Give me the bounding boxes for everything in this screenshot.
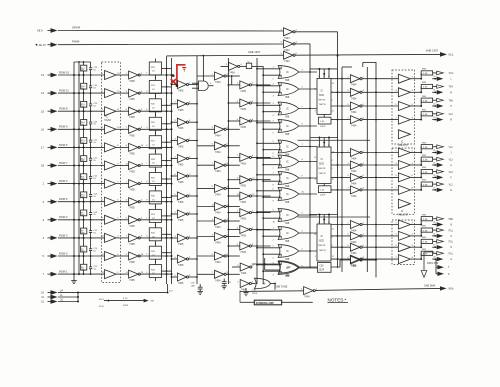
wire buffer 11 output bbox=[116, 255, 129, 257]
wire power rail above module U7 bbox=[310, 68, 338, 79]
buffer bank2 4 bbox=[395, 185, 413, 194]
connector output NDA bbox=[440, 286, 454, 290]
wire output 4 bbox=[432, 117, 437, 121]
svg-text:7405: 7405 bbox=[178, 201, 184, 204]
svg-text:27: 27 bbox=[433, 187, 435, 189]
svg-text:2: 2 bbox=[323, 76, 324, 78]
buffer U1 row 11 bbox=[102, 252, 120, 261]
svg-text:8: 8 bbox=[146, 181, 147, 183]
svg-text:ONE TONE: ONE TONE bbox=[275, 286, 288, 289]
connector output pin G bbox=[437, 257, 453, 261]
connector output pullup VL1 bbox=[437, 182, 454, 186]
svg-text:VL3: VL3 bbox=[449, 172, 454, 174]
svg-text:RESTR: RESTR bbox=[318, 100, 326, 102]
wire power rail above module U8 bbox=[310, 137, 338, 148]
wire buffer 1 output bbox=[116, 74, 129, 76]
resistor R105 bbox=[99, 298, 154, 308]
or gate X8 bbox=[278, 188, 299, 204]
wires and gate U4A pins bbox=[192, 83, 214, 88]
inverter U6 row 7 bbox=[237, 209, 254, 221]
svg-text:23: 23 bbox=[433, 257, 435, 259]
svg-text:3: 3 bbox=[315, 179, 316, 181]
svg-text:IC: IC bbox=[286, 176, 289, 180]
connector output DATA 2 bbox=[436, 267, 450, 276]
connector input pin 3 (ROW 2) bbox=[43, 217, 58, 222]
connector output pin P bbox=[437, 104, 453, 108]
svg-text:20: 20 bbox=[433, 76, 435, 78]
or gate X9 bbox=[278, 209, 299, 225]
wire output 8 bbox=[432, 187, 437, 191]
svg-text:17: 17 bbox=[41, 146, 44, 150]
or gate X1 bbox=[278, 66, 299, 82]
svg-text:7404: 7404 bbox=[351, 125, 357, 128]
svg-text:ROW 11: ROW 11 bbox=[59, 89, 69, 93]
svg-text:PWM: PWM bbox=[72, 40, 80, 44]
svg-text:NETW: NETW bbox=[319, 104, 326, 106]
wire bus E to inverter C5 bbox=[197, 187, 215, 189]
wire buffer bank3.1 output bbox=[410, 224, 420, 226]
wire buffer 8 output bbox=[116, 201, 129, 203]
svg-text:ROW 0: ROW 0 bbox=[59, 251, 68, 255]
inverter U15B bbox=[237, 280, 254, 292]
svg-text:5.6K: 5.6K bbox=[423, 172, 428, 174]
wire one-tone line bbox=[240, 290, 304, 293]
wire net PWM bbox=[58, 43, 284, 46]
resistor R33 bbox=[149, 243, 171, 263]
resistor R29 bbox=[149, 169, 171, 189]
wire inverter C5 output bbox=[226, 188, 240, 190]
svg-text:ROW 2: ROW 2 bbox=[59, 215, 68, 219]
wire output 1 bbox=[432, 76, 437, 80]
inverter U2 E row 5 bbox=[126, 143, 144, 155]
svg-text:7405: 7405 bbox=[129, 116, 135, 119]
wire buffer bank1.4 output bbox=[410, 119, 420, 121]
svg-text:16: 16 bbox=[41, 127, 44, 131]
inverter U3 row 8 bbox=[174, 210, 191, 222]
bus vertical A bbox=[73, 62, 75, 281]
svg-text:22: 22 bbox=[433, 245, 435, 247]
wire inverter B4 output bbox=[189, 140, 198, 142]
wire bus E to inverter C6 bbox=[197, 206, 215, 208]
wire inverter B9 output bbox=[189, 237, 198, 239]
inverter U12 gate 2 bbox=[347, 232, 364, 244]
wire gate X2 inputs bbox=[256, 84, 281, 98]
wire inverter C1 output bbox=[226, 75, 240, 77]
red annotation bracket bbox=[177, 65, 186, 86]
svg-text:7405: 7405 bbox=[178, 243, 184, 246]
wire buffer bank2.3 output bbox=[410, 176, 420, 178]
svg-text:7405: 7405 bbox=[129, 261, 135, 264]
capacitor C18 bbox=[89, 202, 98, 221]
resistor R12 pullup bbox=[81, 147, 87, 167]
svg-text:15: 15 bbox=[314, 88, 316, 90]
wire buffer 4 output bbox=[116, 128, 129, 130]
wire module U9 output 2 bbox=[331, 235, 350, 237]
svg-text:7404: 7404 bbox=[284, 60, 290, 63]
IC module U8 resistor network bbox=[314, 147, 334, 184]
wire bus D2 to inverter B1 bbox=[171, 84, 178, 86]
connector input pin 4 (ROW 3) bbox=[43, 236, 58, 241]
svg-text:13: 13 bbox=[41, 73, 44, 77]
dashed box buffer bank 1 bbox=[392, 70, 415, 144]
svg-text:7404: 7404 bbox=[215, 242, 221, 245]
svg-text:7405: 7405 bbox=[178, 219, 184, 222]
wire inverter C2 output bbox=[226, 128, 240, 130]
connector input pin 18 (ROW 7) bbox=[41, 163, 58, 168]
inverter U2 F row 12 bbox=[126, 270, 144, 282]
svg-text:ROW 5: ROW 5 bbox=[59, 197, 68, 201]
inverter U6 row 9 bbox=[237, 242, 254, 254]
svg-text:7405: 7405 bbox=[129, 171, 135, 174]
svg-text:5.6K: 5.6K bbox=[423, 230, 428, 232]
svg-text:1: 1 bbox=[318, 76, 319, 78]
wire gate X5 inputs bbox=[256, 141, 281, 155]
wire bus E to inverter C3 bbox=[197, 145, 215, 147]
svg-text:3: 3 bbox=[328, 76, 329, 78]
svg-text:7404: 7404 bbox=[215, 279, 221, 282]
svg-text:998: 998 bbox=[285, 222, 290, 225]
wire inverter B3 output bbox=[189, 121, 198, 123]
svg-text:7404: 7404 bbox=[351, 97, 357, 100]
wire gate X4 inputs bbox=[256, 121, 281, 135]
wire ROW 4 bbox=[58, 183, 105, 185]
svg-text:2: 2 bbox=[332, 237, 333, 239]
resistor R31 bbox=[149, 206, 171, 226]
label IC 74L54 bbox=[104, 116, 112, 123]
wire row 10 to bus D bbox=[140, 236, 173, 239]
resistor R89 output pullup bbox=[420, 82, 436, 93]
frame corner right top bbox=[342, 62, 376, 67]
wire inverter B6 output bbox=[189, 175, 198, 177]
wire bus E to inverter C8 bbox=[197, 236, 215, 238]
svg-text:7404: 7404 bbox=[304, 296, 310, 299]
wire buffer bank1.2 output bbox=[410, 91, 420, 93]
wire inverter B1 output bbox=[189, 84, 198, 86]
svg-text:7405: 7405 bbox=[178, 264, 184, 267]
svg-text:BCD: BCD bbox=[319, 241, 324, 243]
connector input pin 15 (ROW 8) bbox=[41, 109, 58, 114]
inverter U3 row 2 bbox=[174, 100, 191, 112]
svg-text:J: J bbox=[450, 153, 451, 155]
wire module U7 output 4 bbox=[331, 119, 350, 121]
svg-text:22UF: 22UF bbox=[320, 195, 326, 197]
wire ROW 10 bbox=[58, 74, 105, 76]
wire routing between group1 and group2 bbox=[298, 139, 371, 141]
wire bus E to inverter C4 bbox=[197, 164, 215, 166]
svg-text:IC: IC bbox=[286, 231, 289, 235]
svg-text:SUMMING AMP: SUMMING AMP bbox=[256, 302, 275, 305]
svg-text:7405: 7405 bbox=[178, 146, 184, 149]
connector output NL2 bbox=[440, 52, 454, 57]
capacitor module C30 bbox=[318, 263, 332, 273]
wire buffer bank2.4 output bbox=[410, 189, 420, 191]
svg-text:ROW 8: ROW 8 bbox=[59, 107, 68, 111]
wire gate X7 inputs bbox=[256, 173, 281, 187]
wire gate X7 output bbox=[299, 176, 317, 179]
inverter U12 gate 3 bbox=[347, 243, 364, 255]
buffer bank3 2 bbox=[395, 231, 413, 240]
resistor R23 bbox=[149, 59, 171, 79]
wire bus F to inverter D7 bbox=[228, 212, 240, 214]
svg-text:IC: IC bbox=[286, 249, 289, 253]
wire inverter D6 output bbox=[252, 195, 271, 197]
svg-text:7404: 7404 bbox=[229, 71, 235, 74]
resistor R80 output pullup bbox=[420, 214, 436, 225]
wire gate X8 inputs bbox=[256, 189, 281, 203]
wire U15B output to X15 bbox=[252, 283, 256, 285]
svg-text:IC: IC bbox=[286, 160, 289, 164]
wire bus E to inverter C1 bbox=[197, 75, 215, 77]
connector input AE-9 bbox=[37, 28, 58, 33]
IC module U9 resistor network bbox=[314, 224, 334, 261]
or gate X12 bbox=[278, 262, 299, 278]
buffer spare 2 bbox=[398, 199, 410, 208]
svg-text:IC: IC bbox=[321, 90, 324, 92]
buffer U1 row 10 bbox=[102, 233, 120, 242]
buffer bank1 2 bbox=[395, 88, 413, 97]
svg-text:PCL: PCL bbox=[449, 230, 454, 232]
wire LL LE join bbox=[58, 292, 79, 303]
svg-text:3: 3 bbox=[146, 236, 147, 238]
resistor R27 bbox=[149, 132, 171, 152]
svg-text:SO K: SO K bbox=[99, 299, 105, 301]
svg-text:7405: 7405 bbox=[178, 109, 184, 112]
svg-text:23: 23 bbox=[433, 117, 435, 119]
wire bus D2 to inverter B4 bbox=[171, 140, 178, 142]
capacitor C37 bottom bbox=[191, 282, 204, 294]
wire ROW 8 bbox=[58, 110, 105, 112]
buffer bank2 2 bbox=[395, 161, 413, 170]
wire bus F to inverter D8 bbox=[228, 229, 240, 231]
bus vertical right x367 bbox=[366, 67, 368, 272]
or gate X10 bbox=[278, 227, 299, 243]
or gate X4 bbox=[278, 120, 299, 136]
svg-text:998: 998 bbox=[285, 201, 290, 204]
buffer bank2 1 bbox=[395, 148, 413, 157]
wire U16A output bbox=[362, 259, 377, 261]
svg-text:7405: 7405 bbox=[129, 98, 135, 101]
buffer U1 row 4 bbox=[102, 125, 121, 134]
wire bus F to inverter D4 bbox=[228, 157, 240, 159]
wire row 4 to bus D bbox=[140, 127, 173, 130]
wire routing between group2 and group3 bbox=[298, 216, 371, 218]
inverter U2 B row 2 bbox=[126, 89, 143, 101]
svg-text:BCD: BCD bbox=[319, 95, 324, 97]
inverter U3 row 9 bbox=[174, 234, 191, 246]
wire gate X11 output bbox=[299, 249, 317, 252]
wire net ANE1307 left segment bbox=[167, 55, 284, 57]
svg-text:7404: 7404 bbox=[241, 272, 247, 275]
wire module U9 output 4 bbox=[331, 258, 350, 260]
svg-text:21: 21 bbox=[433, 233, 435, 235]
buffer bank3 3 bbox=[395, 243, 413, 252]
wire row 1 to bus D bbox=[140, 73, 173, 76]
svg-text:X2: X2 bbox=[247, 61, 249, 63]
svg-text:7405: 7405 bbox=[240, 251, 246, 254]
svg-text:5: 5 bbox=[146, 272, 147, 274]
wire U20B output to bus bbox=[295, 44, 310, 268]
svg-text:7404: 7404 bbox=[215, 81, 221, 84]
inverter U5 row 9 bbox=[212, 252, 229, 264]
svg-text:TK4: TK4 bbox=[449, 87, 454, 89]
svg-text:22: 22 bbox=[433, 103, 435, 105]
svg-text:1: 1 bbox=[318, 222, 319, 224]
svg-text:7405: 7405 bbox=[129, 134, 135, 137]
wire inverter C3 output bbox=[226, 145, 240, 147]
wire buffer bank1.1 output bbox=[410, 78, 420, 80]
wire buffer 12 output bbox=[116, 273, 129, 275]
capacitor C19 bbox=[89, 184, 98, 203]
wire gate X3 inputs bbox=[256, 103, 281, 117]
connector output pin J bbox=[437, 150, 452, 154]
svg-text:7404: 7404 bbox=[215, 226, 221, 229]
connector output pin R bbox=[437, 117, 453, 121]
svg-text:5.6K: 5.6K bbox=[423, 184, 428, 186]
wire gate X9 inputs bbox=[256, 210, 281, 224]
svg-text:VCC: VCC bbox=[449, 73, 454, 75]
svg-text:PCL: PCL bbox=[449, 242, 454, 244]
wire inverter D5 output bbox=[252, 179, 271, 181]
wire bus D2 to inverter B2 bbox=[171, 103, 178, 105]
wire inverter C6 output bbox=[226, 206, 240, 208]
wire bus F to inverter D5 bbox=[228, 179, 240, 181]
svg-text:G: G bbox=[450, 259, 452, 261]
wire bus D2 to inverter B10 bbox=[171, 258, 178, 260]
buffer bank1 1 bbox=[395, 74, 413, 83]
svg-text:5.6K: 5.6K bbox=[423, 242, 428, 244]
buffer U1 row 3 bbox=[102, 107, 121, 116]
svg-text:18: 18 bbox=[41, 164, 44, 168]
connector input AE-10 bbox=[36, 42, 58, 47]
wire module U7 output 3 bbox=[331, 105, 350, 107]
wire gate X12 inputs bbox=[256, 263, 281, 277]
svg-text:7404: 7404 bbox=[215, 134, 221, 137]
svg-text:24: 24 bbox=[433, 150, 435, 152]
wire bus F to inverter D9 bbox=[228, 245, 240, 247]
svg-text:7404: 7404 bbox=[351, 111, 357, 114]
resistor R93 output pullup bbox=[420, 155, 436, 166]
inverter U5 row 2 bbox=[212, 125, 229, 137]
svg-text:3: 3 bbox=[328, 222, 329, 224]
wire bus F to inverter D3 bbox=[228, 120, 240, 122]
svg-text:5: 5 bbox=[146, 127, 147, 129]
connector output pullup VL3 bbox=[437, 170, 454, 174]
svg-text:ANE 1307: ANE 1307 bbox=[248, 50, 261, 54]
inverter U10 gate 3 bbox=[347, 102, 364, 114]
dashed box buffer bank 3 bbox=[392, 220, 415, 264]
resistor R16 pullup bbox=[81, 74, 87, 94]
wire gate X2 output bbox=[299, 87, 317, 89]
connector output pin F bbox=[437, 175, 453, 179]
connector input LL bbox=[41, 294, 63, 300]
inverter U3 row 1 bbox=[174, 81, 191, 93]
inverter U16A bbox=[347, 256, 364, 268]
svg-text:DATA STR: DATA STR bbox=[427, 262, 439, 265]
svg-text:998: 998 bbox=[285, 116, 290, 119]
wire inverter U10.3 to buffer bbox=[362, 105, 398, 107]
resistor R28 bbox=[149, 151, 171, 171]
junction dots near red bracket bbox=[172, 74, 178, 87]
svg-text:12: 12 bbox=[332, 110, 334, 112]
wire bus E to inverter C2 bbox=[197, 128, 215, 130]
svg-text:5.6K: 5.6K bbox=[423, 73, 428, 75]
svg-text:ROW 9: ROW 9 bbox=[59, 125, 68, 129]
wire ROW 11 bbox=[58, 92, 105, 94]
wire gate X3 output bbox=[299, 106, 317, 109]
wire inverter U11.4 to buffer bbox=[362, 189, 398, 191]
wire module U8 output 3 bbox=[331, 177, 350, 179]
resistor R88 output pullup bbox=[420, 69, 436, 80]
svg-text:21: 21 bbox=[433, 90, 435, 92]
wire inverter C10 output bbox=[226, 273, 240, 275]
wire output 2 bbox=[432, 90, 437, 94]
inverter U2 F row 6 bbox=[126, 162, 144, 174]
svg-text:IC: IC bbox=[286, 107, 289, 111]
wire buffer bank2.2 output bbox=[410, 164, 420, 166]
capacitor C16 bbox=[89, 238, 98, 257]
svg-text:LH: LH bbox=[60, 289, 63, 292]
connector output pullup VL2 bbox=[437, 112, 454, 116]
svg-text:5.6K: 5.6K bbox=[423, 100, 428, 102]
inverter U5 row 3 bbox=[212, 142, 229, 154]
resistor R11 pullup bbox=[81, 165, 87, 185]
wire row 2 to bus D bbox=[140, 91, 173, 94]
label NOTES bbox=[328, 297, 349, 302]
buffer bank2 3 bbox=[395, 173, 413, 182]
top rail of RC network bbox=[74, 61, 91, 63]
inverter U6 row 5 bbox=[237, 176, 255, 188]
svg-text:7405: 7405 bbox=[129, 189, 135, 192]
wire bus D2 to inverter B9 bbox=[171, 237, 178, 239]
resistor R94 output pullup bbox=[420, 167, 436, 178]
svg-text:7404: 7404 bbox=[215, 212, 221, 215]
resistor R10 pullup bbox=[81, 183, 87, 203]
svg-text:IC: IC bbox=[321, 236, 324, 238]
connector output pin A bbox=[437, 163, 453, 167]
and gate U4A bbox=[199, 81, 209, 91]
connector input pin 16 (ROW 9) bbox=[41, 127, 58, 132]
resistor R8 pullup bbox=[81, 219, 87, 239]
svg-text:3: 3 bbox=[146, 91, 147, 93]
svg-text:5.6K: 5.6K bbox=[423, 159, 428, 161]
svg-text:22UF: 22UF bbox=[319, 270, 325, 272]
wire inverter C9 output bbox=[226, 255, 240, 257]
or gate X14 bbox=[279, 261, 300, 277]
wire inverter D8 output bbox=[252, 229, 271, 231]
wire buffer 3 output bbox=[116, 110, 129, 112]
svg-text:998: 998 bbox=[285, 185, 290, 188]
connector output pullup PB2 bbox=[437, 217, 454, 221]
wire row 3 to bus D bbox=[140, 109, 173, 112]
buffer U1 row 9 bbox=[102, 215, 120, 224]
connector output pullup VL3 bbox=[437, 157, 454, 161]
connector output pullup TK4 bbox=[437, 85, 454, 89]
svg-text:R105: R105 bbox=[123, 305, 129, 307]
bus vertical B bbox=[78, 62, 80, 274]
wire bus E to inverter C7 bbox=[197, 220, 215, 222]
svg-text:IC: IC bbox=[286, 192, 289, 196]
inverter U10 gate 2 bbox=[347, 88, 364, 100]
wire row 12 to bus D bbox=[140, 272, 173, 275]
svg-text:4: 4 bbox=[146, 109, 147, 111]
wire gate X6 inputs bbox=[256, 156, 281, 170]
svg-text:OR: OR bbox=[287, 265, 291, 269]
inverter U3 row 3 bbox=[174, 118, 191, 130]
wire inverter D3 output bbox=[252, 120, 271, 122]
wire inverter D7 output bbox=[252, 212, 271, 214]
wire C30 to U16A bbox=[331, 260, 350, 267]
svg-text:4: 4 bbox=[146, 254, 147, 256]
